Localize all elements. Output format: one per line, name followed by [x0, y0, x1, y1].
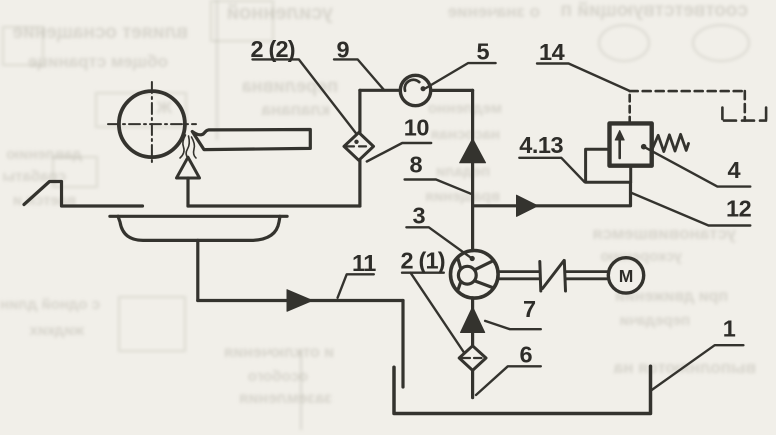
coupling: [540, 261, 566, 292]
svg-text:4.13: 4.13: [519, 132, 563, 158]
svg-text:7: 7: [523, 296, 536, 322]
leader 5: [421, 63, 496, 91]
subplate 4.13: [586, 149, 631, 182]
nozzle: [177, 157, 200, 178]
svg-text:6: 6: [520, 341, 533, 367]
wire: nozzle feed drop: [186, 178, 189, 206]
workpiece holder: [192, 130, 310, 150]
leader 3: [406, 227, 474, 261]
leader 6: [476, 366, 541, 395]
svg-text:2 (1): 2 (1): [401, 247, 445, 273]
svg-text:M: M: [619, 266, 634, 286]
leader 9: [334, 59, 384, 90]
svg-text:2 (2): 2 (2): [251, 36, 295, 62]
filter 6: [459, 346, 486, 371]
svg-text:10: 10: [404, 114, 430, 140]
leader 2(1): [402, 273, 464, 353]
wire: top pipe 9: [360, 89, 473, 92]
leader 4: [644, 147, 751, 187]
leader 1: [651, 345, 743, 390]
coolant spray: [180, 135, 196, 158]
svg-text:4: 4: [728, 157, 741, 183]
machine bed: [24, 182, 143, 207]
svg-text:5: 5: [477, 39, 490, 65]
wire: return line into tank: [401, 301, 404, 388]
svg-text:1: 1: [723, 315, 736, 341]
coolant pan: [110, 216, 287, 240]
wire: suction pipe: [471, 298, 474, 398]
svg-text:3: 3: [413, 203, 426, 229]
leader 11: [338, 274, 374, 297]
wire: pan drain: [196, 240, 199, 300]
spring: [653, 134, 689, 151]
leader 10: [367, 143, 431, 162]
pump 3: [451, 250, 499, 298]
dashed pilot drain line 14: [630, 91, 745, 123]
leader 7: [485, 321, 541, 329]
shaft: [498, 272, 608, 279]
flow arrow 8: [460, 139, 486, 163]
wire: filter branch vertical: [358, 90, 361, 206]
wire: nozzle feed horizontal: [188, 204, 360, 207]
grinding wheel: [108, 82, 196, 166]
dashed drain tank: [722, 108, 766, 121]
svg-text:9: 9: [337, 36, 350, 62]
leader 14: [537, 64, 629, 91]
filter 10 / 2(2): [344, 133, 374, 161]
pressure gauge 5: [400, 75, 430, 105]
leader 4.13: [519, 158, 584, 182]
motor M: [608, 258, 643, 293]
svg-text:8: 8: [410, 151, 423, 177]
leader 2(2): [253, 59, 356, 133]
tank 1: [394, 366, 651, 413]
leader 8: [405, 180, 471, 194]
faint bleed-through layer: [0, 0, 776, 1]
wire: return line horizontal: [198, 299, 403, 302]
flow arrow 12: [517, 195, 538, 216]
svg-text:12: 12: [726, 196, 752, 222]
wire: riser line 8: [471, 90, 474, 250]
flow arrow 7: [461, 307, 485, 333]
flow arrow 11: [287, 290, 312, 312]
wire: branch to relief valve: [473, 182, 631, 206]
svg-text:11: 11: [352, 250, 376, 276]
leader 12: [631, 193, 751, 226]
svg-text:14: 14: [539, 39, 565, 65]
relief valve 4: [610, 123, 652, 165]
